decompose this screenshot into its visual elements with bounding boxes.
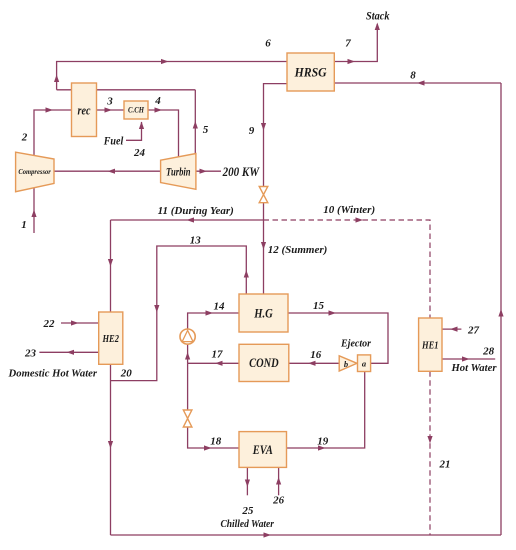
svg-text:HE1: HE1 [421,340,438,351]
wire left loop upper [110,220,112,312]
COND condenser [239,344,289,381]
HE1 heat exchanger [419,318,442,371]
arrow 5 up [193,121,198,129]
svg-text:21: 21 [439,459,451,471]
turbine [161,154,196,190]
svg-text:9: 9 [249,125,255,137]
svg-text:24: 24 [133,147,146,159]
svg-text:Fuel: Fuel [103,133,124,147]
arrow 13 down [154,305,159,313]
arrow stack up [375,23,380,31]
svg-text:C.CH: C.CH [128,106,145,115]
svg-text:rec: rec [78,103,91,117]
HRSG [287,53,334,91]
arrow 6 up [54,75,59,83]
wire bottom return [111,534,502,536]
ejector [339,355,370,372]
wire 7 HRSG to stack [334,24,377,62]
arrow 14 right [206,310,214,315]
wire 28 hot water out HE1 [442,358,495,360]
arrow 12 down [261,242,266,250]
wire left loop lower [110,364,112,535]
arrow left loop down1 [108,259,113,267]
svg-text:Chilled Water: Chilled Water [220,519,274,530]
wire 11 during year [111,219,264,221]
svg-text:11 (During Year): 11 (During Year) [158,205,234,217]
svg-text:13: 13 [190,235,202,247]
svg-text:H.G: H.G [253,305,273,320]
wire right riser to 8 [500,83,502,535]
svg-text:Compressor: Compressor [18,168,51,176]
wire 1 compressor inlet [33,188,35,233]
wire pump suction [187,344,189,363]
wire 27 water in HE1 [442,328,461,330]
svg-text:EVA: EVA [252,443,273,457]
arrow 4 right [155,107,163,112]
svg-text:7: 7 [345,38,351,50]
svg-text:Ejector: Ejector [340,338,372,350]
arrow 6 right [161,59,169,64]
compressor [16,152,54,192]
svg-text:12 (Summer): 12 (Summer) [268,244,328,256]
arrow 7 right [348,59,356,64]
wire 26 chilled water in [278,468,280,496]
wire 3 rec to C.CH [97,109,125,111]
arrow 18 right [204,445,212,450]
arrow 15 right [329,310,337,315]
arrow 17 left [215,361,223,366]
svg-text:Turbin: Turbin [166,164,191,178]
wire 12 valve to H.G [263,203,265,294]
arrow 21 down [427,436,432,444]
arrow bottom right [264,532,272,537]
svg-text:27: 27 [467,324,480,336]
wire 21 dashed through HE1 [429,371,431,535]
svg-text:22: 22 [43,318,56,330]
arrow 9 down [261,123,266,131]
svg-text:HRSG: HRSG [294,65,327,79]
wire 25 chilled water out [246,468,248,496]
arrow right riser up [498,309,503,317]
svg-text:18: 18 [210,435,222,447]
combustion chamber C.CH [124,101,148,119]
arrow 10 right [356,217,364,222]
wire 16 ejector to COND [289,362,339,364]
svg-text:COND: COND [249,356,279,370]
wire 22 water in HE2 [61,322,99,324]
arrow fuel up [139,122,144,130]
svg-text:10 (Winter): 10 (Winter) [323,204,375,216]
svg-text:6: 6 [265,37,271,49]
svg-text:19: 19 [317,435,329,447]
HE2 heat exchanger [99,312,123,364]
wire exhaust through rec [57,89,196,91]
arrow 3 right [105,107,113,112]
wire 23 water out HE2 [39,351,98,353]
svg-text:b: b [344,359,348,369]
wire 8 to HRSG [334,82,501,84]
recuperator rec [72,83,97,137]
svg-text:5: 5 [203,124,209,136]
wire 18 valve to EVA [188,363,239,448]
arrow pump up [185,352,190,360]
valve V1 [259,187,268,203]
arrow 23 left [67,350,75,355]
arrow 25 down [245,480,250,488]
wire 15 H.G to ejector [288,313,388,363]
wire 200 KW output [196,170,221,172]
svg-text:HE2: HE2 [102,334,120,345]
arrow 13 up [244,270,249,278]
wire 2 compressor to rec [34,110,72,156]
arrow 28 right [462,356,470,361]
wire 19 EVA to ejector [287,372,365,448]
arrow shaft left [108,169,116,174]
svg-text:25: 25 [241,505,254,517]
EVA evaporator [239,432,287,468]
arrow 27 left [450,327,458,332]
arrow 1 up [31,210,36,218]
svg-text:28: 28 [482,346,495,358]
arrow 22 right [71,320,79,325]
arrow 2 right [46,107,54,112]
svg-text:8: 8 [410,70,416,82]
svg-text:26: 26 [272,495,285,507]
svg-text:1: 1 [21,219,27,231]
arrow 16 left [308,361,316,366]
arrow 26 up [276,477,281,485]
svg-text:3: 3 [106,95,113,107]
arrow 11 left [187,217,195,222]
valve V2 [183,410,192,427]
svg-text:16: 16 [310,349,322,361]
pump [180,329,195,344]
svg-text:Domestic Hot Water: Domestic Hot Water [8,368,98,380]
svg-text:Stack: Stack [366,9,390,23]
wire 9 HRSG down to valve [264,84,288,187]
wire shaft turbine-compressor [54,170,161,172]
svg-text:23: 23 [24,348,37,360]
arrow 8 left [417,80,425,85]
arrow left loop down2 [108,441,113,449]
svg-text:Hot Water: Hot Water [451,362,498,374]
wire 4 C.CH to turbine [148,110,179,157]
wire 14 pump to H.G [188,313,239,329]
wire 10 winter dashed [264,220,431,535]
wire 17 COND to pump [188,362,239,364]
svg-text:15: 15 [313,300,325,312]
wire 13 H.G to node 20 [111,246,247,381]
wire 6 rec to HRSG [57,62,287,90]
svg-text:20: 20 [120,368,133,380]
arrow 200kw right [200,169,208,174]
arrow 19 right [318,445,326,450]
svg-text:17: 17 [212,349,224,361]
H.G generator [239,294,288,332]
wire 5 turbine exhaust up [194,90,196,154]
svg-text:2: 2 [21,132,28,144]
svg-text:14: 14 [214,301,226,313]
svg-text:200 KW: 200 KW [222,165,260,179]
wire 24 fuel line [126,122,142,140]
svg-text:4: 4 [154,95,161,107]
